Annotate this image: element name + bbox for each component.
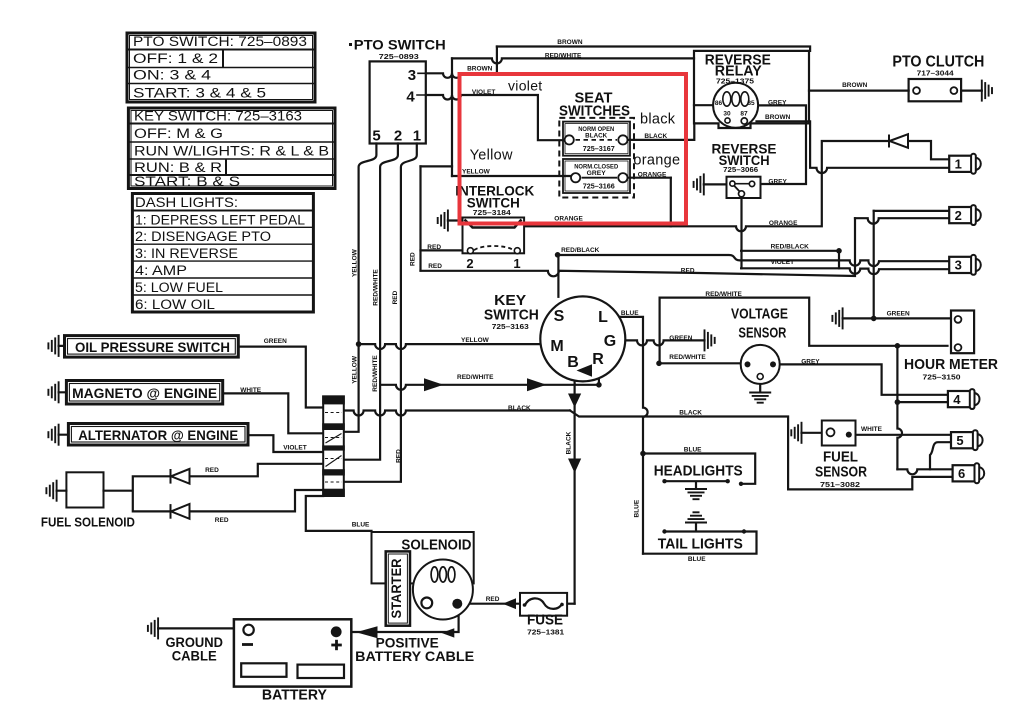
svg-text:MAGNETO @ ENGINE: MAGNETO @ ENGINE (72, 385, 217, 401)
svg-text:85: 85 (747, 100, 755, 107)
svg-text:VOLTAGE: VOLTAGE (731, 306, 788, 323)
svg-text:black: black (640, 112, 676, 128)
svg-text:RED/WHITE: RED/WHITE (457, 374, 494, 381)
svg-text:NORM.CLOSED: NORM.CLOSED (574, 165, 619, 171)
svg-text:RED: RED (392, 290, 399, 304)
svg-text:2: 2 (955, 208, 962, 223)
svg-text:725–3184: 725–3184 (473, 210, 511, 217)
svg-text:YELLOW: YELLOW (352, 248, 359, 277)
svg-text:30: 30 (723, 111, 731, 118)
svg-text:2: DISENGAGE PTO: 2: DISENGAGE PTO (135, 229, 271, 244)
svg-text:BLUE: BLUE (684, 446, 702, 453)
svg-text:1: 1 (513, 256, 520, 271)
svg-text:RELAY: RELAY (715, 63, 762, 80)
svg-text:SWITCHES: SWITCHES (559, 103, 630, 120)
svg-text:725–1375: 725–1375 (716, 79, 754, 86)
svg-text:OFF: M & G: OFF: M & G (134, 126, 223, 141)
svg-text:Yellow: Yellow (470, 148, 513, 164)
svg-text:2: 2 (466, 256, 473, 271)
svg-text:FUSE: FUSE (527, 613, 563, 629)
svg-text:BROWN: BROWN (842, 82, 868, 89)
svg-text:BLACK: BLACK (565, 431, 572, 454)
svg-text:RED/BLACK: RED/BLACK (561, 247, 600, 254)
svg-text:BLACK: BLACK (644, 133, 667, 140)
svg-text:3: 3 (408, 67, 416, 84)
svg-text:2: 2 (394, 128, 402, 145)
svg-text:RED: RED (681, 268, 695, 275)
svg-text:ALTERNATOR @ ENGINE: ALTERNATOR @ ENGINE (78, 427, 238, 443)
svg-text:RED: RED (410, 252, 417, 266)
svg-text:BLACK: BLACK (508, 405, 531, 412)
svg-text:BLACK: BLACK (679, 410, 702, 417)
svg-text:RED/WHITE: RED/WHITE (372, 269, 379, 306)
svg-text:ORANGE: ORANGE (769, 220, 798, 227)
svg-text:BLUE: BLUE (634, 499, 641, 517)
svg-text:R: R (592, 351, 604, 368)
svg-text:PTO SWITCH: PTO SWITCH (354, 37, 446, 53)
svg-text:717–3044: 717–3044 (917, 71, 954, 78)
svg-text:NORM OPEN: NORM OPEN (578, 127, 614, 133)
svg-text:6: LOW OIL: 6: LOW OIL (135, 297, 216, 312)
svg-text:GREY: GREY (801, 358, 820, 365)
svg-text:STARTER: STARTER (389, 558, 404, 618)
svg-text:1: 1 (955, 157, 962, 172)
svg-text:725–3167: 725–3167 (583, 146, 615, 153)
svg-text:TAIL LIGHTS: TAIL LIGHTS (658, 536, 743, 553)
svg-text:725–1381: 725–1381 (527, 630, 564, 637)
svg-text:BLUE: BLUE (352, 521, 370, 528)
svg-text:BROWN: BROWN (557, 39, 583, 46)
svg-text:B: B (567, 354, 579, 371)
svg-text:GREEN: GREEN (264, 338, 287, 345)
svg-text:G: G (604, 333, 616, 350)
svg-text:RUN: B & R: RUN: B & R (134, 160, 222, 175)
svg-text:3: 3 (955, 258, 962, 273)
svg-text:725–3163: 725–3163 (492, 324, 529, 331)
svg-text:PTO CLUTCH: PTO CLUTCH (892, 54, 984, 71)
svg-text:WHITE: WHITE (861, 426, 883, 433)
svg-text:RED/WHITE: RED/WHITE (545, 53, 582, 60)
svg-text:BROWN: BROWN (765, 114, 791, 121)
svg-text:BLUE: BLUE (621, 310, 639, 317)
svg-text:RUN W/LIGHTS: R & L & B: RUN W/LIGHTS: R & L & B (134, 144, 329, 159)
svg-text:725–0893: 725–0893 (379, 54, 419, 61)
svg-text:RED/WHITE: RED/WHITE (372, 355, 379, 392)
svg-text:START: 3 & 4 & 5: START: 3 & 4 & 5 (133, 86, 266, 101)
svg-text:SENSOR: SENSOR (738, 325, 786, 342)
svg-text:YELLOW: YELLOW (352, 355, 359, 384)
svg-text:751–3082: 751–3082 (820, 482, 860, 489)
svg-text:RED: RED (205, 467, 219, 474)
svg-text:SWITCH: SWITCH (484, 307, 539, 324)
svg-text:GREY: GREY (768, 100, 787, 107)
svg-text:HEADLIGHTS: HEADLIGHTS (654, 463, 743, 480)
svg-text:orange: orange (633, 153, 680, 169)
svg-text:725–3166: 725–3166 (583, 184, 615, 191)
svg-text:ORANGE: ORANGE (638, 171, 667, 178)
svg-text:725–3150: 725–3150 (923, 375, 961, 382)
svg-text:FUEL SOLENOID: FUEL SOLENOID (41, 516, 135, 530)
svg-text:GREY: GREY (587, 171, 606, 177)
svg-text:4: AMP: 4: AMP (135, 263, 187, 278)
svg-text:RED: RED (486, 596, 500, 603)
svg-text:GREY: GREY (768, 178, 787, 185)
svg-text:RED/WHITE: RED/WHITE (705, 291, 742, 298)
svg-text:OIL PRESSURE SWITCH: OIL PRESSURE SWITCH (75, 339, 230, 355)
svg-text:BLACK: BLACK (585, 134, 608, 140)
svg-text:RED: RED (396, 449, 403, 463)
svg-text:4: 4 (953, 392, 961, 407)
svg-text:YELLOW: YELLOW (462, 168, 491, 175)
svg-text:CABLE: CABLE (172, 649, 217, 664)
svg-text:VIOLET: VIOLET (283, 445, 307, 452)
svg-text:WHITE: WHITE (240, 387, 262, 394)
svg-text:SENSOR: SENSOR (815, 464, 867, 481)
svg-text:BROWN: BROWN (467, 66, 493, 73)
svg-text:5: LOW FUEL: 5: LOW FUEL (135, 280, 224, 295)
svg-text:violet: violet (508, 78, 542, 94)
svg-text:RED/BLACK: RED/BLACK (771, 244, 810, 251)
svg-text:1: DEPRESS LEFT PEDAL: 1: DEPRESS LEFT PEDAL (135, 212, 305, 227)
svg-text:L: L (598, 309, 608, 326)
svg-text:RED: RED (215, 517, 229, 524)
svg-text:5: 5 (372, 128, 380, 145)
svg-text:PTO SWITCH: 725–0893: PTO SWITCH: 725–0893 (133, 34, 307, 49)
svg-text:86: 86 (715, 100, 723, 107)
svg-text:RED: RED (427, 244, 441, 251)
svg-text:BATTERY: BATTERY (262, 688, 327, 704)
svg-text:RED: RED (428, 263, 442, 270)
svg-text:S: S (554, 308, 565, 325)
svg-text:SOLENOID: SOLENOID (401, 538, 471, 554)
svg-text:SWITCH: SWITCH (719, 152, 770, 168)
svg-text:6: 6 (958, 466, 965, 481)
svg-text:HOUR METER: HOUR METER (904, 356, 998, 373)
svg-text:87: 87 (740, 111, 748, 118)
svg-text:ON: 3 & 4: ON: 3 & 4 (133, 68, 212, 83)
svg-text:KEY SWITCH: 725–3163: KEY SWITCH: 725–3163 (134, 109, 302, 124)
svg-text:GREEN: GREEN (669, 335, 692, 342)
svg-text:ORANGE: ORANGE (554, 216, 583, 223)
svg-text:RED/WHITE: RED/WHITE (669, 354, 706, 361)
svg-text:725–3066: 725–3066 (723, 167, 758, 174)
svg-text:GREEN: GREEN (887, 311, 910, 318)
svg-text:BATTERY CABLE: BATTERY CABLE (355, 649, 474, 664)
svg-text:SWITCH: SWITCH (467, 195, 520, 211)
svg-text:BLUE: BLUE (688, 556, 706, 563)
svg-text:M: M (550, 338, 563, 355)
svg-text:3: IN REVERSE: 3: IN REVERSE (135, 246, 238, 261)
svg-text:VIOLET: VIOLET (771, 259, 795, 266)
svg-text:5: 5 (956, 433, 963, 448)
svg-text:YELLOW: YELLOW (461, 337, 490, 344)
svg-text:DASH LIGHTS:: DASH LIGHTS: (135, 195, 238, 210)
svg-text:START: B & S: START: B & S (134, 174, 240, 189)
svg-text:OFF: 1 & 2: OFF: 1 & 2 (133, 51, 218, 66)
svg-text:4: 4 (406, 89, 415, 106)
svg-text:1: 1 (413, 128, 421, 145)
svg-text:VIOLET: VIOLET (472, 89, 496, 96)
